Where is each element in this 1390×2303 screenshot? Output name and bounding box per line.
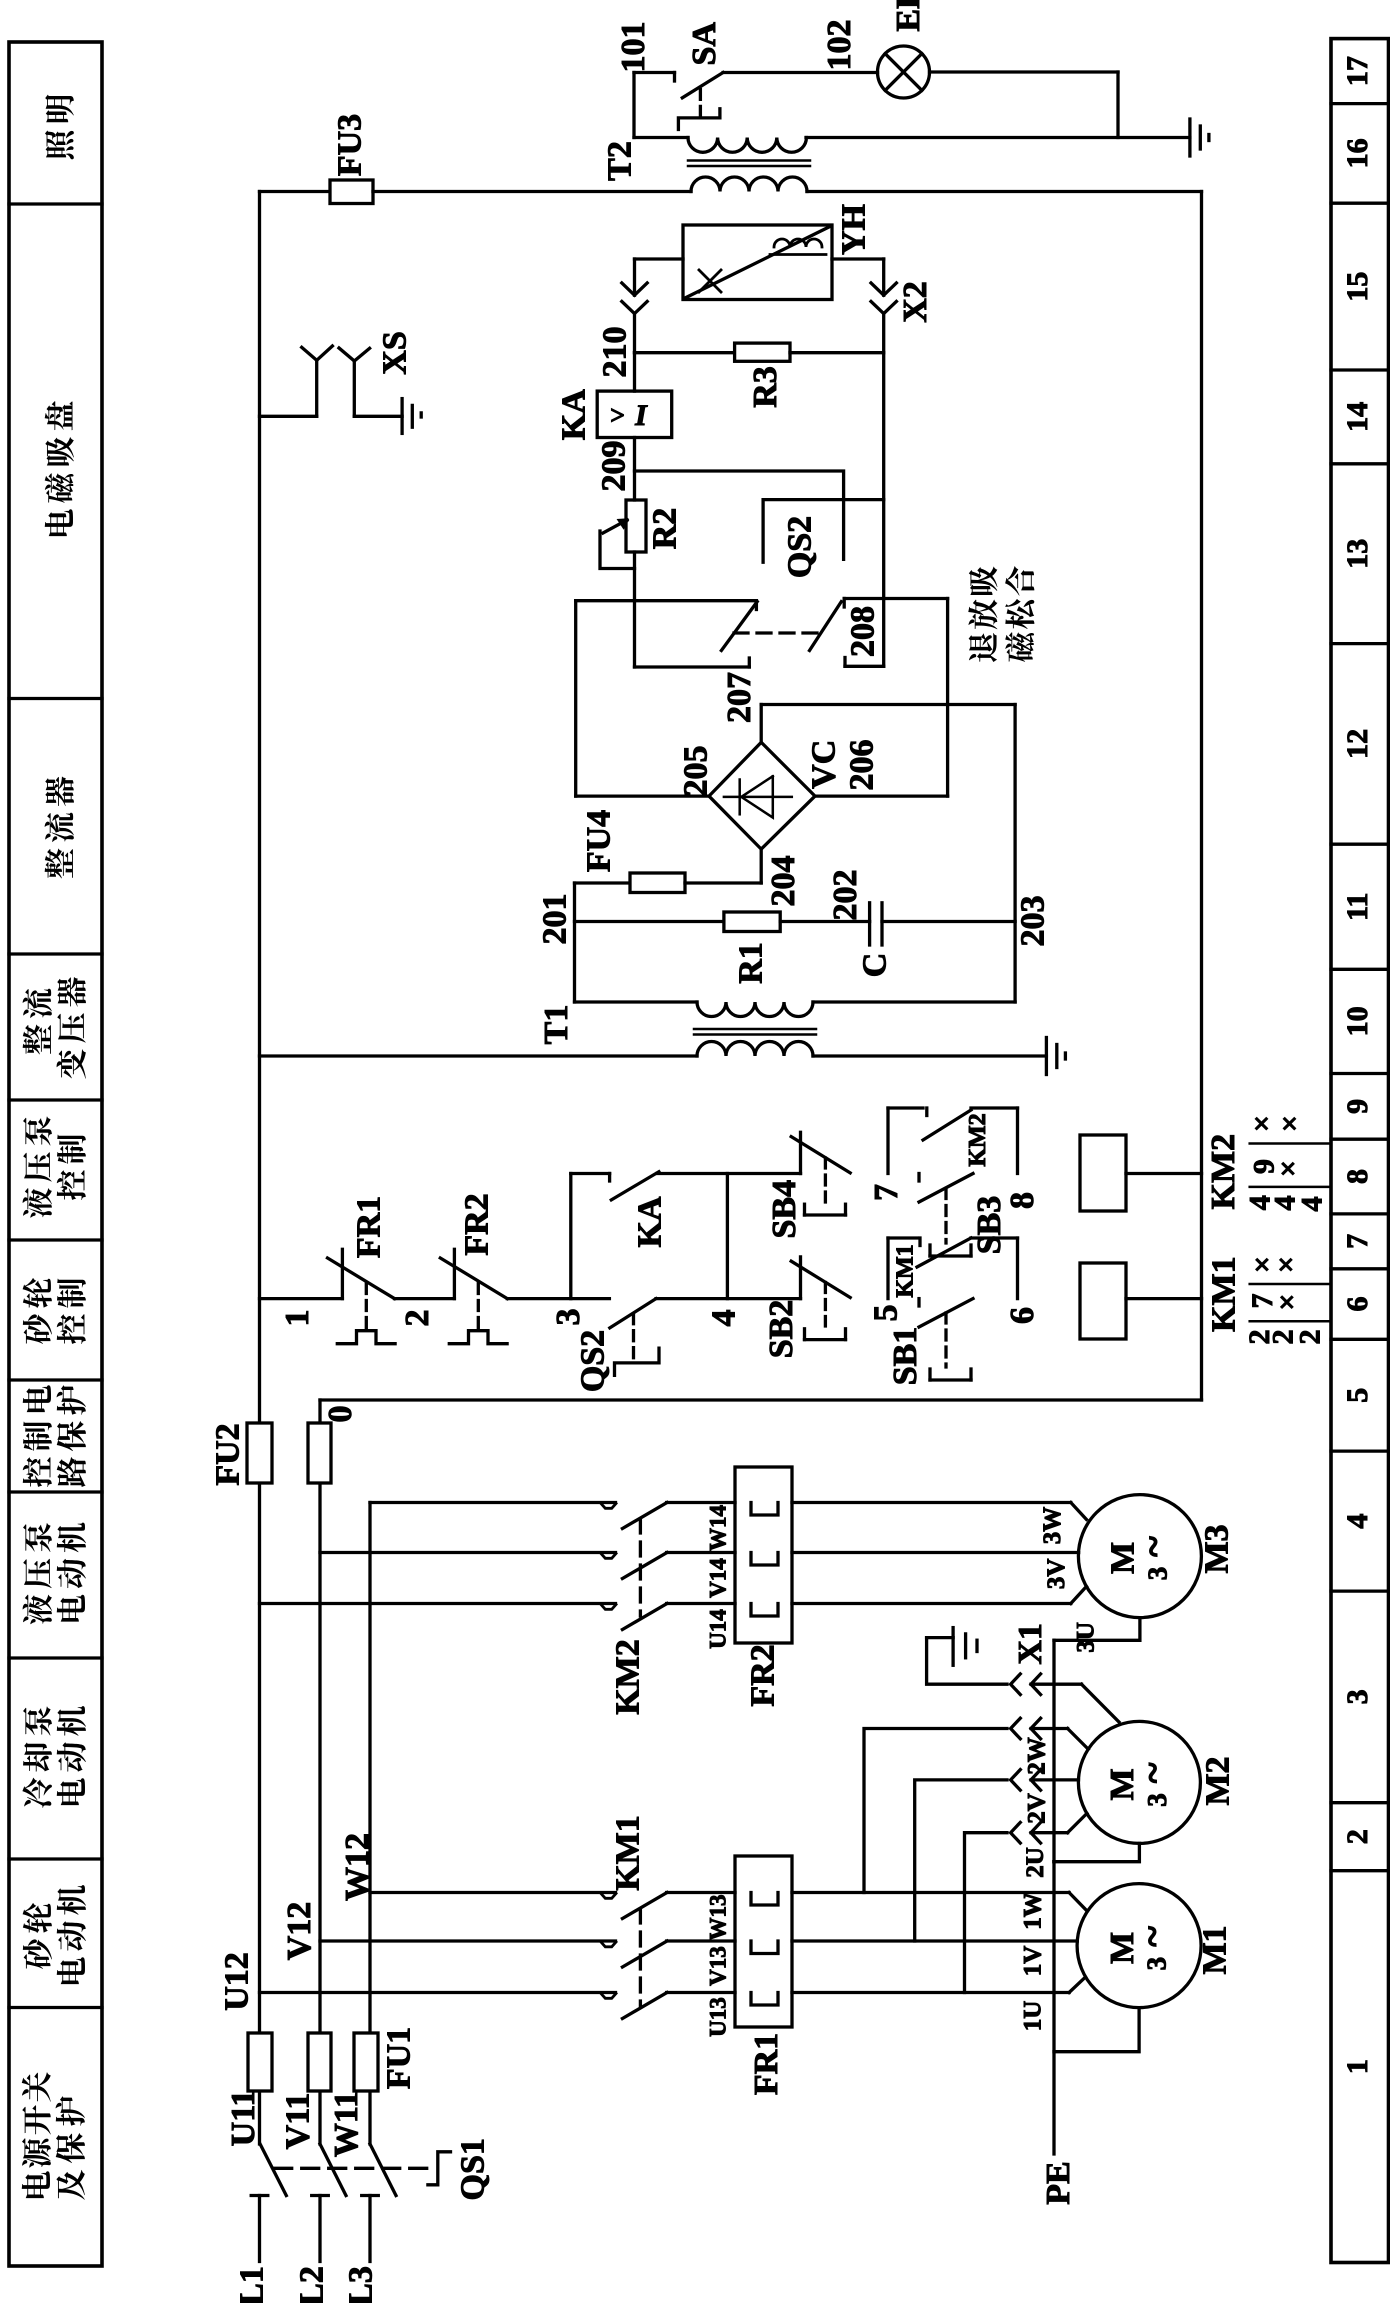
thermal relay FR2 heaters	[735, 1467, 792, 1643]
svg-text:I: I	[634, 399, 648, 432]
svg-text:KM2: KM2	[965, 1113, 991, 1166]
contactor coil KM2	[1080, 1135, 1126, 1211]
svg-text:5: 5	[868, 1305, 905, 1322]
svg-text:13: 13	[1341, 539, 1374, 569]
transformer T2 secondary winding	[634, 136, 688, 139]
svg-text:0: 0	[322, 1406, 359, 1423]
svg-text:15: 15	[1341, 272, 1374, 302]
svg-text:U13: U13	[706, 1997, 731, 2037]
svg-text:8: 8	[1004, 1192, 1041, 1209]
svg-text:×: ×	[1279, 1153, 1296, 1186]
svg-text:3W: 3W	[1039, 1507, 1066, 1545]
current relay KA coil	[633, 353, 636, 391]
svg-text:M2: M2	[1200, 1756, 1237, 1805]
svg-text:V13: V13	[706, 1946, 731, 1986]
wire lamp to ground run	[930, 70, 1119, 73]
wire YH left	[635, 257, 684, 260]
svg-text:FR1: FR1	[748, 2033, 785, 2095]
fuse FU1 (three fuses)	[248, 2033, 272, 2091]
svg-text:1V: 1V	[1020, 1946, 1047, 1977]
svg-text:EL: EL	[890, 0, 927, 32]
motor M1 frame earth wire	[1054, 2008, 1139, 2052]
svg-text:SB1: SB1	[887, 1327, 924, 1386]
wire 0	[320, 1398, 1202, 1401]
wire V-phase rail (0/V11/V12)	[318, 1400, 321, 1423]
wire 2U tap	[965, 1833, 1008, 1993]
disconnect switch QS1	[260, 2144, 286, 2196]
svg-text:FR2: FR2	[459, 1193, 496, 1255]
svg-text:M3: M3	[1199, 1524, 1236, 1573]
QS2 contact link (dashed)	[734, 631, 820, 634]
wire 2W tap	[864, 1729, 1007, 1893]
wire 0 rail (landscape bottom rail)	[1200, 192, 1203, 1401]
start button SB1 (NO)	[917, 1299, 920, 1306]
chuck switch interlock contact QS2 (NO)	[610, 1299, 656, 1328]
connector X2 pole left	[622, 283, 647, 295]
svg-text:FU2: FU2	[210, 1423, 247, 1485]
svg-text:L3: L3	[343, 2266, 380, 2303]
svg-text:QS2: QS2	[782, 516, 819, 578]
svg-text:1W: 1W	[1020, 1892, 1047, 1930]
wire 1 control branch	[260, 1297, 343, 1300]
QS2 chuck switch throw A (wire 209 side)	[635, 471, 844, 559]
svg-text:14: 14	[1341, 402, 1374, 432]
svg-text:209: 209	[596, 441, 633, 492]
svg-text:X2: X2	[897, 281, 934, 323]
wires to KM1 main contacts	[370, 1891, 616, 1894]
stop button SB2 (NC)	[799, 1257, 802, 1299]
wire FU3 to T2 primary	[373, 190, 691, 193]
svg-text:W14: W14	[706, 1505, 731, 1552]
QS2 chuck switch throw B	[763, 500, 884, 563]
transformer T2 core	[688, 159, 810, 162]
svg-text:201: 201	[537, 894, 574, 945]
svg-text:KA: KA	[632, 1196, 669, 1247]
svg-text:2W: 2W	[1024, 1737, 1051, 1775]
svg-text:16: 16	[1341, 138, 1374, 168]
svg-text:205: 205	[677, 746, 714, 797]
svg-text:203: 203	[1015, 896, 1052, 947]
svg-text:FU3: FU3	[332, 114, 369, 176]
chuck YH	[683, 225, 832, 300]
svg-text:206: 206	[843, 740, 880, 791]
svg-text:L2: L2	[294, 2266, 331, 2303]
svg-text:1: 1	[279, 1310, 316, 1327]
svg-text:W11: W11	[328, 2091, 365, 2157]
svg-text:5: 5	[1341, 1388, 1374, 1403]
wires KM1 to FR1	[667, 1891, 735, 1894]
PE earth bus	[1052, 1640, 1055, 2154]
svg-text:XS: XS	[377, 331, 414, 374]
svg-text:T2: T2	[602, 141, 639, 181]
wire 209	[633, 438, 636, 501]
wire 2	[395, 1297, 455, 1300]
wire 3	[507, 1297, 609, 1300]
svg-text:2: 2	[1341, 1829, 1374, 1844]
wire XS to ground	[354, 415, 402, 418]
svg-text:3: 3	[1142, 1793, 1172, 1807]
transformer T2 primary winding	[691, 177, 807, 192]
wire W-phase rail (W11/W12)	[368, 1503, 371, 2034]
fuse FU4	[575, 881, 631, 884]
transformer T1 secondary winding	[575, 1000, 698, 1003]
fuse FU2 (two fuses, control circuit)	[247, 1423, 272, 1483]
thermal relay contact FR1 (NC)	[341, 1249, 344, 1298]
QS2 contact 207	[576, 599, 757, 602]
svg-text:U14: U14	[706, 1609, 731, 1649]
svg-text:7: 7	[1341, 1234, 1374, 1249]
wire 102	[723, 71, 877, 74]
wire T2 primary to 0 rail	[807, 190, 1202, 193]
svg-text:11: 11	[1341, 893, 1374, 921]
svg-text:10: 10	[1341, 1006, 1374, 1036]
svg-text:~: ~	[1130, 1536, 1175, 1557]
motor M2	[1078, 1721, 1200, 1843]
rheostat R2	[626, 500, 646, 552]
svg-text:SA: SA	[686, 22, 723, 66]
wire 1 to T1 primary	[260, 1054, 698, 1057]
svg-text:×: ×	[1253, 1108, 1270, 1141]
socket XS pole 1	[315, 360, 318, 416]
wires KM2 to FR2	[667, 1501, 735, 1504]
wire 4 junction bar	[726, 1174, 729, 1299]
svg-text:SB3: SB3	[971, 1196, 1008, 1255]
svg-text:210: 210	[597, 327, 634, 378]
svg-text:3: 3	[550, 1309, 587, 1326]
svg-text:KM2: KM2	[1205, 1134, 1242, 1210]
svg-text:7: 7	[1246, 1294, 1279, 1309]
X1 earth pole wire	[927, 1638, 1007, 1685]
fuse FU3	[260, 190, 331, 193]
svg-text:~: ~	[1130, 1926, 1175, 1947]
svg-text:FR2: FR2	[745, 1644, 782, 1706]
svg-text:17: 17	[1341, 56, 1374, 86]
svg-text:×: ×	[1277, 1249, 1294, 1282]
svg-text:9: 9	[1341, 1099, 1374, 1114]
capacitor C	[868, 903, 871, 945]
svg-text:X1: X1	[1012, 1623, 1049, 1665]
svg-text:PE: PE	[1040, 2161, 1077, 2204]
svg-text:204: 204	[765, 856, 802, 907]
resistor R1 branch	[575, 920, 724, 923]
motor M1	[1077, 1884, 1201, 2008]
svg-text:V12: V12	[281, 1902, 318, 1961]
svg-text:1: 1	[1341, 2059, 1374, 2074]
svg-text:6: 6	[1341, 1297, 1374, 1312]
wire 202 to 203	[882, 920, 1015, 923]
svg-text:3V: 3V	[1043, 1559, 1070, 1590]
wire 201	[573, 883, 576, 1002]
QS2 contact 208	[844, 597, 947, 600]
svg-text:FU1: FU1	[381, 2027, 418, 2089]
start button SB3 (NO)	[917, 1174, 920, 1182]
svg-text:3U: 3U	[1072, 1622, 1099, 1653]
contactor aux contact KM1 (NO self-hold)	[886, 1238, 889, 1299]
transformer T1 core	[694, 1028, 816, 1031]
svg-text:W12: W12	[339, 1833, 376, 1901]
wire 203	[1013, 705, 1016, 1003]
thermal relay contact FR2 (NC)	[453, 1249, 456, 1298]
svg-text:R1: R1	[733, 942, 770, 984]
contactor aux contact KM2 (NO self-hold)	[886, 1108, 889, 1174]
wires FR1 to motor M1	[792, 1891, 1069, 1894]
svg-text:KM1: KM1	[893, 1244, 919, 1297]
svg-text:3: 3	[1143, 1567, 1173, 1581]
wire to socket XS	[260, 415, 317, 418]
svg-text:KM2: KM2	[610, 1639, 647, 1715]
socket XS pole 2	[353, 361, 356, 416]
switch SA	[634, 71, 675, 74]
svg-text:×: ×	[1278, 1286, 1295, 1319]
svg-text:207: 207	[721, 672, 758, 723]
svg-text:9: 9	[1248, 1159, 1281, 1174]
svg-text:SB4: SB4	[766, 1180, 803, 1239]
current relay contact KA (NO, parallel)	[569, 1174, 572, 1299]
resistor R3 (discharge)	[635, 351, 735, 354]
svg-text:VC: VC	[806, 740, 843, 789]
svg-text:KA: KA	[556, 389, 593, 440]
wire 2V tap	[915, 1780, 1007, 1941]
svg-text:>: >	[610, 401, 625, 430]
svg-text:3: 3	[1142, 1957, 1172, 1971]
svg-text:2: 2	[399, 1310, 436, 1327]
svg-text:4: 4	[1296, 1197, 1329, 1212]
motor M3	[1078, 1495, 1201, 1618]
svg-text:T1: T1	[538, 1005, 575, 1045]
svg-text:FU4: FU4	[581, 810, 618, 872]
contactor KM2 main contacts	[601, 1504, 616, 1509]
svg-text:L1: L1	[234, 2266, 271, 2303]
wire 204	[685, 881, 761, 884]
motor M3 frame earth wire	[1054, 1618, 1140, 1641]
labels demagnetize/release/attract	[969, 633, 998, 662]
wire 206	[815, 794, 948, 797]
chuck right rail / connector X2 pole right	[832, 257, 884, 260]
svg-text:C: C	[857, 953, 894, 978]
ground (T1 / wire 0)	[1045, 1038, 1048, 1075]
svg-text:4: 4	[1341, 1514, 1374, 1529]
ground (lighting circuit)	[1188, 119, 1191, 156]
svg-text:KM1: KM1	[610, 1815, 647, 1891]
svg-text:202: 202	[827, 870, 864, 921]
svg-text:~: ~	[1130, 1762, 1175, 1783]
svg-text:3: 3	[1341, 1689, 1374, 1704]
svg-text:V14: V14	[706, 1558, 731, 1598]
svg-text:7: 7	[868, 1184, 905, 1201]
svg-text:FR1: FR1	[351, 1196, 388, 1258]
motor M2 frame earth wire	[1054, 1843, 1140, 1861]
svg-text:×: ×	[1253, 1249, 1270, 1282]
svg-text:12: 12	[1341, 729, 1374, 759]
svg-text:8: 8	[1341, 1169, 1374, 1184]
wire 207 (bridge top to QS2)	[760, 705, 763, 743]
svg-text:W13: W13	[706, 1895, 731, 1941]
svg-text:2V: 2V	[1024, 1793, 1051, 1824]
svg-text:101: 101	[615, 22, 652, 73]
wires FR2 to motor M3	[792, 1501, 1071, 1504]
svg-text:2: 2	[1294, 1330, 1327, 1345]
svg-text:R3: R3	[747, 366, 784, 408]
svg-text:208: 208	[845, 606, 882, 657]
svg-text:M1: M1	[1197, 1925, 1234, 1974]
svg-text:KM1: KM1	[1206, 1256, 1243, 1332]
svg-text:V11: V11	[280, 2093, 317, 2150]
lamp EL	[878, 46, 930, 98]
wire 101 riser	[632, 73, 635, 138]
figure-zone number column (landscape bottom row, rotated)	[1331, 39, 1389, 2263]
rectifier bridge VC	[709, 742, 815, 849]
svg-text:6: 6	[1004, 1307, 1041, 1324]
svg-text:U12: U12	[219, 1952, 256, 2011]
wires to KM2 main contacts	[370, 1501, 616, 1504]
svg-text:×: ×	[1281, 1108, 1298, 1141]
wire T1 primary to ground	[813, 1054, 1046, 1057]
svg-text:YH: YH	[836, 204, 873, 255]
title column (landscape top header row, rotated)	[9, 42, 102, 2266]
svg-text:SB2: SB2	[763, 1300, 800, 1359]
wire 205	[576, 794, 709, 797]
wire U-phase rail (1/U11/U12)	[258, 192, 261, 1424]
contactor coil KM1	[1080, 1263, 1126, 1339]
svg-text:1U: 1U	[1020, 2001, 1047, 2032]
svg-text:QS1: QS1	[454, 2138, 491, 2200]
svg-text:102: 102	[821, 20, 858, 71]
svg-text:U11: U11	[225, 2090, 262, 2147]
contactor KM1 main contacts	[601, 1894, 616, 1899]
svg-text:QS2: QS2	[575, 1330, 612, 1392]
ground (XS socket)	[400, 399, 403, 434]
svg-text:2U: 2U	[1022, 1847, 1049, 1878]
thermal relay FR1 heaters	[735, 1856, 792, 2027]
ground (X1 plug)	[927, 1636, 954, 1639]
svg-text:4: 4	[706, 1310, 743, 1327]
transformer T1 primary winding	[697, 1042, 813, 1057]
svg-text:R2: R2	[647, 508, 684, 550]
stop button SB4 (NC)	[799, 1132, 802, 1173]
